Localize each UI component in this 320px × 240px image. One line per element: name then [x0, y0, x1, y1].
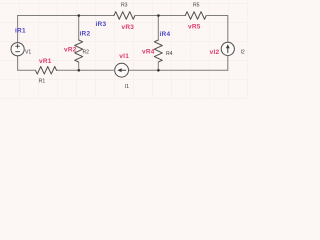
resistor R1	[36, 67, 57, 75]
svg-text:iR2: iR2	[80, 30, 91, 37]
svg-text:vI1: vI1	[119, 53, 129, 60]
svg-text:vI2: vI2	[210, 49, 220, 56]
svg-text:R2: R2	[83, 50, 90, 56]
resistor R5	[185, 12, 206, 20]
svg-text:iR1: iR1	[15, 28, 26, 35]
wire bottom middle segment	[57, 69, 115, 71]
wire R4 bottom lead	[157, 62, 159, 70]
wire V1 bottom lead	[17, 56, 19, 71]
wire top left segment	[18, 14, 114, 16]
wire V1 top lead	[17, 15, 19, 42]
svg-text:vR2: vR2	[64, 47, 77, 54]
svg-text:R4: R4	[166, 51, 173, 57]
wire R2 top lead	[78, 15, 80, 40]
svg-text:R5: R5	[193, 2, 200, 8]
node junction bottom of R4	[157, 69, 160, 72]
svg-text:iR3: iR3	[96, 21, 107, 28]
wire top middle segment	[135, 14, 185, 16]
svg-text:vR1: vR1	[39, 58, 52, 65]
node junction top of R4	[157, 14, 160, 17]
svg-text:I2: I2	[241, 50, 245, 56]
resistor R2	[75, 40, 83, 62]
svg-text:V1: V1	[25, 50, 31, 56]
wire bottom left segment	[18, 69, 36, 71]
svg-text:vR5: vR5	[188, 24, 201, 31]
resistor R4	[154, 40, 162, 62]
svg-text:vR3: vR3	[122, 24, 135, 31]
current source I1	[115, 63, 129, 77]
svg-text:vR4: vR4	[142, 48, 155, 55]
current source I2	[221, 42, 234, 55]
voltage source V1	[11, 43, 24, 56]
wire I2 bottom lead	[227, 56, 229, 71]
resistor R3	[114, 12, 135, 20]
wire R4 top lead	[157, 15, 159, 40]
node junction top of R2	[78, 14, 81, 17]
svg-text:R1: R1	[39, 78, 46, 84]
node junction bottom of R2	[78, 69, 81, 72]
svg-text:I1: I1	[125, 84, 129, 90]
svg-text:iR4: iR4	[160, 31, 171, 38]
wire top right segment to I2	[206, 15, 228, 42]
wire bottom right segment	[129, 69, 228, 71]
svg-text:R3: R3	[121, 2, 128, 8]
wire R2 bottom lead	[78, 62, 80, 70]
